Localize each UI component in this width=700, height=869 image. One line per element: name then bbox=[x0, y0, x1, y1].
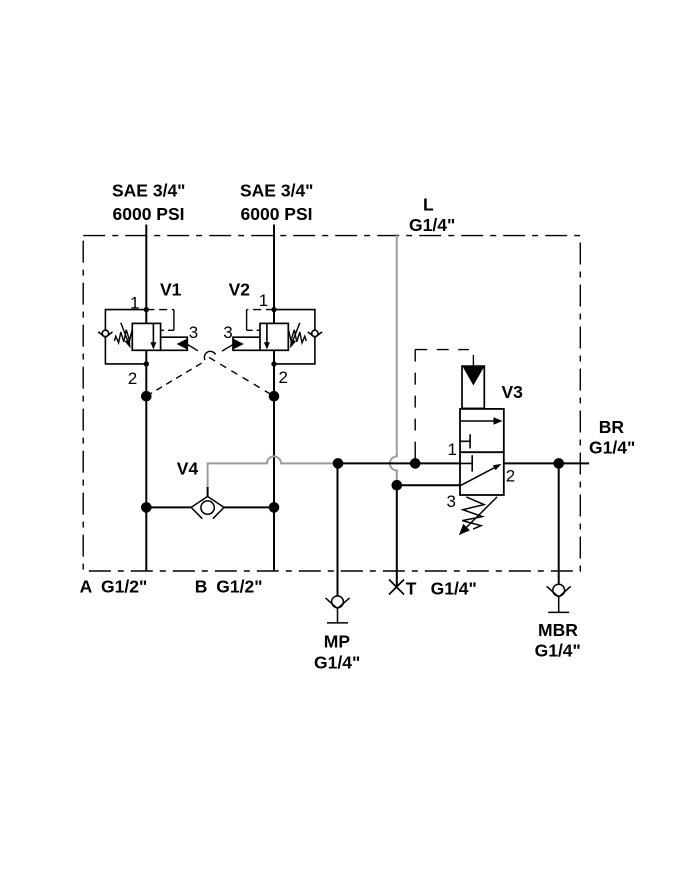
junction dot V4 right bbox=[269, 502, 280, 513]
wire: B-port vertical line lower bbox=[273, 350, 275, 571]
svg-text:T: T bbox=[406, 579, 417, 599]
cross pilot dashed line B (V2 port3 to A node) with hop bbox=[146, 345, 233, 397]
V1 main box bbox=[132, 323, 160, 350]
V2 spring arrow bbox=[293, 323, 300, 341]
junction dot V4 left bbox=[141, 502, 152, 513]
V1 internal arrow bbox=[152, 323, 154, 348]
junction dot T/L port3 bbox=[392, 480, 403, 491]
svg-text:SAE 3/4": SAE 3/4" bbox=[112, 181, 185, 201]
svg-text:G1/2": G1/2" bbox=[216, 577, 262, 597]
junction dot A cross bbox=[141, 391, 152, 402]
V1 port3 rectangle bbox=[161, 337, 188, 350]
V3 actuator rect bbox=[462, 366, 484, 408]
V2 internal arrow bbox=[266, 323, 268, 348]
wire: B-port vertical line upper bbox=[273, 225, 275, 324]
wire: V4 gray pilot line with hop over B line bbox=[208, 456, 338, 487]
V3 spring bbox=[462, 497, 484, 529]
V1 bypass line bbox=[105, 310, 146, 364]
V4 diamond body bbox=[191, 496, 224, 518]
svg-text:G1/4": G1/4" bbox=[431, 579, 477, 599]
svg-text:1: 1 bbox=[448, 440, 457, 459]
V3 bottom square blocked port bbox=[460, 455, 472, 471]
svg-text:MBR: MBR bbox=[538, 620, 578, 640]
V2 spring bbox=[288, 330, 306, 343]
svg-text:L: L bbox=[423, 194, 434, 214]
svg-text:V3: V3 bbox=[502, 382, 524, 402]
wire: MBR vertical bbox=[558, 463, 560, 584]
wire: MP vertical bbox=[337, 463, 339, 596]
MBR measuring port symbol bbox=[547, 584, 571, 612]
V1 spring bbox=[114, 330, 132, 343]
V4 ball bbox=[201, 501, 214, 514]
V3 body boxes bbox=[460, 409, 504, 495]
V1 check valve ball bbox=[102, 330, 108, 336]
wire: A-port vertical line lower bbox=[145, 350, 147, 571]
V3 dashed pilot loop top bbox=[415, 349, 469, 351]
svg-text:V1: V1 bbox=[160, 280, 182, 300]
V3 top square arrow bbox=[461, 420, 495, 422]
node dot V2 port2 bbox=[271, 361, 276, 366]
V2 check valve ball bbox=[312, 330, 318, 336]
V1 pilot dashed bottom bbox=[161, 329, 174, 331]
junction dot BR bbox=[553, 458, 564, 469]
svg-text:V4: V4 bbox=[177, 458, 199, 478]
V3 pilot stub bbox=[472, 355, 474, 366]
svg-text:G1/4": G1/4" bbox=[589, 438, 635, 458]
wire: V3 port3 line bbox=[397, 484, 460, 486]
svg-text:6000 PSI: 6000 PSI bbox=[241, 204, 313, 224]
wire: T vertical line bbox=[396, 485, 398, 587]
V1 pilot dashed top bbox=[146, 309, 174, 311]
svg-text:SAE 3/4": SAE 3/4" bbox=[240, 181, 313, 201]
svg-text:2: 2 bbox=[506, 467, 515, 486]
V2 port3 solid triangle bbox=[233, 339, 244, 350]
svg-text:3: 3 bbox=[189, 323, 198, 342]
svg-text:MP: MP bbox=[324, 632, 351, 652]
V2 pilot dashed bottom bbox=[247, 329, 260, 331]
shuttle valve V4 bbox=[146, 487, 274, 519]
svg-text:V2: V2 bbox=[229, 280, 251, 300]
V2 port3 rectangle bbox=[233, 337, 260, 350]
svg-text:G1/2": G1/2" bbox=[101, 577, 147, 597]
valve V2 counterbalance bbox=[233, 310, 322, 364]
V4 left line bbox=[146, 506, 191, 508]
wire: BR line bbox=[504, 462, 589, 464]
valve V3 pilot operated 3-way bbox=[415, 350, 504, 535]
cross pilot dashed line A (V1 port3 to B node) bbox=[188, 345, 275, 397]
V3 bottom square diagonal arrow bbox=[460, 468, 494, 486]
V2 bypass line bbox=[274, 310, 315, 364]
valve V1 counterbalance bbox=[98, 310, 187, 364]
V4 right line bbox=[224, 506, 274, 508]
svg-text:G1/4": G1/4" bbox=[314, 652, 360, 672]
svg-text:BR: BR bbox=[599, 417, 625, 437]
junction dot B cross bbox=[269, 391, 280, 402]
V3 top square blocked port bbox=[460, 434, 470, 448]
svg-text:3: 3 bbox=[447, 492, 456, 511]
svg-text:3: 3 bbox=[223, 323, 232, 342]
V2 pilot vertical bbox=[246, 310, 248, 331]
V4 top stub bbox=[207, 487, 209, 496]
V2 main box bbox=[260, 323, 288, 350]
svg-text:A: A bbox=[80, 577, 93, 597]
wire: L gray vertical line with hop over port-1 line bbox=[390, 234, 397, 485]
wire: A-port vertical line upper bbox=[145, 225, 147, 324]
V3 pilot stub bottom bbox=[414, 449, 416, 463]
junction dot V3 pilot bbox=[410, 458, 421, 469]
MP measuring port symbol bbox=[326, 596, 350, 623]
svg-text:2: 2 bbox=[128, 369, 137, 388]
T port cross symbol bbox=[389, 580, 404, 595]
svg-text:6000 PSI: 6000 PSI bbox=[113, 204, 185, 224]
V1 spring arrow bbox=[121, 323, 128, 341]
V3 actuator solid triangle bbox=[463, 367, 484, 386]
border dash-dot frame bbox=[83, 236, 580, 571]
V1 pilot vertical bbox=[173, 310, 175, 331]
wire: port1 line MP-dot to V3 bbox=[338, 462, 460, 464]
node dot V1 port2 bbox=[144, 361, 149, 366]
svg-text:G1/4": G1/4" bbox=[535, 640, 581, 660]
svg-text:G1/4": G1/4" bbox=[409, 215, 455, 235]
V2 check valve seat bbox=[308, 332, 322, 338]
svg-text:1: 1 bbox=[130, 293, 139, 312]
V1 port3 solid triangle bbox=[177, 339, 188, 350]
V3 spring arrow bbox=[467, 497, 498, 527]
svg-text:1: 1 bbox=[259, 291, 268, 310]
node dot V2 port1 bbox=[271, 307, 276, 312]
junction dot MP bbox=[333, 458, 344, 469]
svg-text:2: 2 bbox=[279, 368, 288, 387]
V3 dashed pilot loop left bbox=[414, 350, 416, 452]
V1 check valve seat bbox=[98, 332, 112, 338]
svg-text:B: B bbox=[195, 577, 208, 597]
V2 pilot dashed top bbox=[247, 309, 274, 311]
node dot V1 port1 bbox=[144, 307, 149, 312]
